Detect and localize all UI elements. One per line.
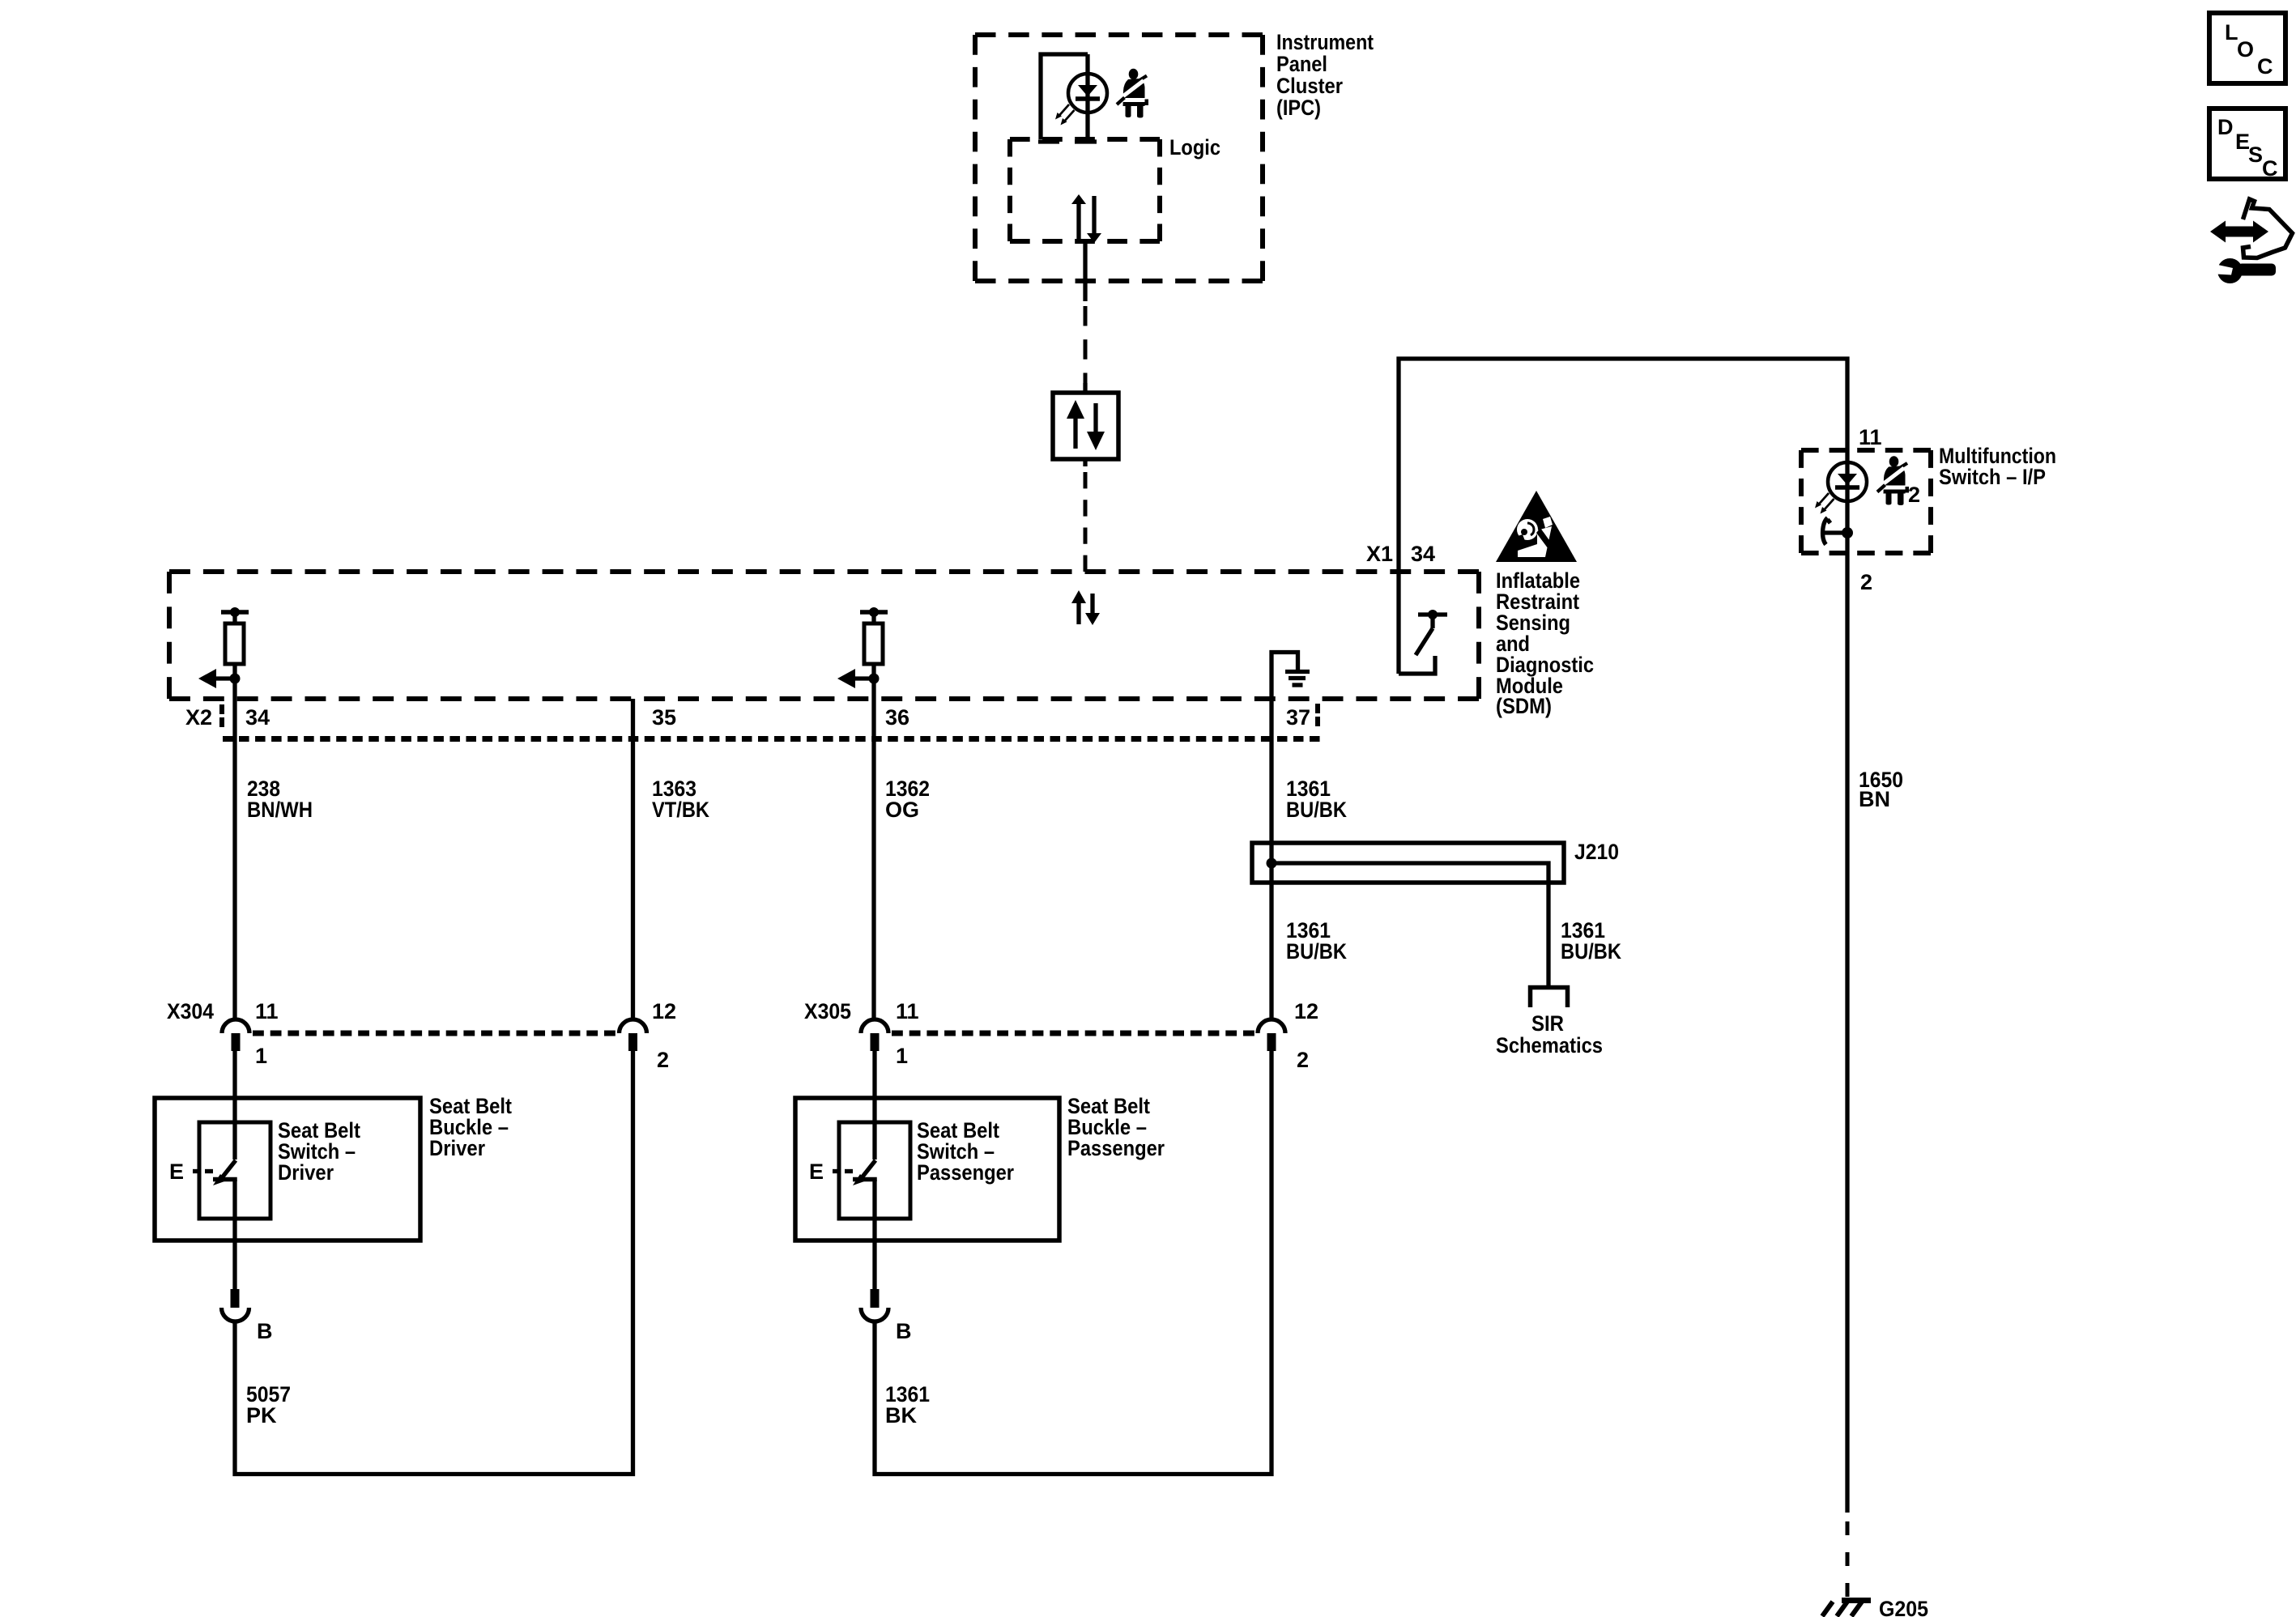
multifunction switch label xyxy=(1939,444,2056,489)
SDM label xyxy=(1496,568,1594,718)
pin label 2 (X304) xyxy=(657,1048,669,1072)
wire label 1650 BN xyxy=(1859,768,1903,811)
svg-text:PK: PK xyxy=(246,1403,277,1428)
pin 37 separator dash xyxy=(1315,704,1320,726)
wire label 238 BN/WH xyxy=(247,777,313,822)
logic dashed box in IPC xyxy=(1010,139,1160,241)
svg-text:E: E xyxy=(809,1160,824,1184)
resistor R-passenger top bar with node xyxy=(860,607,888,623)
wire label 1361 BK xyxy=(885,1382,930,1428)
svg-text:1: 1 xyxy=(896,1044,908,1068)
svg-text:2: 2 xyxy=(1860,570,1872,594)
svg-text:BN/WH: BN/WH xyxy=(247,798,313,822)
pin label 2 (X305) xyxy=(1297,1048,1309,1072)
E node label (passenger) xyxy=(809,1160,853,1184)
wire - driver switch to terminal B xyxy=(232,1180,236,1289)
pin label 35 xyxy=(652,705,676,730)
svg-text:O: O xyxy=(2237,37,2254,62)
ground symbol inside SDM (pin 37) xyxy=(1272,653,1310,702)
svg-text:(IPC): (IPC) xyxy=(1276,96,1321,120)
splice pack J210 xyxy=(1252,843,1564,985)
wire label 1361 BU/BK (branch) xyxy=(1561,918,1621,964)
wire - LED branch hook in IPC xyxy=(1038,54,1088,142)
svg-text:Cluster: Cluster xyxy=(1276,74,1343,98)
svg-text:BU/BK: BU/BK xyxy=(1286,939,1347,964)
resistor R-passenger xyxy=(864,623,883,664)
pin label X1 xyxy=(1366,542,1393,566)
wire - resistor R-driver to pin 34 xyxy=(232,664,236,1018)
seat belt icon in multifunction switch xyxy=(1877,456,1920,507)
wire - resistor R-passenger to pin 36 xyxy=(871,664,875,1018)
connector X305 pin 12 (arc + pin) xyxy=(1258,1019,1285,1051)
switch S-passenger blade xyxy=(853,1160,875,1185)
svg-text:11: 11 xyxy=(1859,425,1882,449)
seat belt icon in IPC xyxy=(1117,69,1148,118)
svg-text:S: S xyxy=(2248,143,2263,167)
svg-text:X1: X1 xyxy=(1366,542,1393,566)
svg-text:11: 11 xyxy=(896,999,919,1023)
connector X2 label xyxy=(185,705,212,730)
svg-text:X304: X304 xyxy=(167,999,214,1023)
bidirectional arrows at SDM serial input xyxy=(1071,590,1100,625)
bidirectional arrows in logic box xyxy=(1071,194,1101,243)
svg-text:SIR: SIR xyxy=(1531,1011,1564,1036)
wire - serial data dashed segment lower xyxy=(1083,459,1087,572)
svg-text:37: 37 xyxy=(1286,705,1310,730)
seat belt switch passenger inner box xyxy=(839,1122,910,1219)
arrow to seat belt indicator (driver) xyxy=(198,669,235,688)
svg-text:Switch – I/P: Switch – I/P xyxy=(1939,465,2046,489)
svg-text:Panel: Panel xyxy=(1276,52,1327,76)
wire - X305-11 into passenger buckle switch xyxy=(872,1051,876,1160)
E node label (driver) xyxy=(169,1160,213,1184)
connector X305 dashed link xyxy=(892,1031,1254,1036)
instrument panel cluster (IPC) dashed box xyxy=(975,35,1263,281)
svg-text:34: 34 xyxy=(245,705,270,730)
G205 label xyxy=(1879,1597,1928,1617)
pin label 11 (X305) xyxy=(896,999,919,1023)
svg-text:OG: OG xyxy=(885,798,919,822)
svg-text:Logic: Logic xyxy=(1169,135,1220,160)
svg-text:BU/BK: BU/BK xyxy=(1286,798,1347,822)
connector X304 pin 12 (arc + pin) xyxy=(620,1019,647,1051)
svg-text:D: D xyxy=(2217,115,2234,139)
terminal B connector (passenger) xyxy=(861,1289,888,1321)
svg-text:BN: BN xyxy=(1859,787,1890,811)
svg-text:C: C xyxy=(2257,54,2273,79)
svg-text:Schematics: Schematics xyxy=(1496,1033,1603,1057)
wire - 5057 PK down and loop to X304-12 xyxy=(235,1051,633,1474)
SIR Schematics label xyxy=(1496,1011,1603,1057)
pin label 2 (multifunction switch) xyxy=(1860,570,1872,594)
legend DESC box xyxy=(2209,109,2285,181)
connector X305 pin 11 (arc + pin) xyxy=(861,1019,888,1051)
junction node A (pin34 wire) xyxy=(230,674,241,684)
pin label B (driver) xyxy=(257,1319,273,1343)
connector X2 separator dash xyxy=(219,704,224,727)
terminal B connector (driver) xyxy=(222,1289,249,1321)
svg-text:G205: G205 xyxy=(1879,1597,1928,1617)
pin label 1 (X305) xyxy=(896,1044,908,1068)
wire - multifunction switch through-wire 1650 xyxy=(1845,450,1849,1513)
ground G205 symbol xyxy=(1822,1601,1871,1617)
arrow to seat belt indicator (passenger) xyxy=(837,669,874,688)
connector X305 label xyxy=(804,999,851,1023)
pin label 37 xyxy=(1286,705,1310,730)
pin label 34 (X2) xyxy=(245,705,270,730)
svg-text:C: C xyxy=(2262,156,2278,181)
svg-text:1: 1 xyxy=(255,1044,267,1068)
wire - serial data dashed segment upper xyxy=(1084,306,1088,393)
pin label 34 (X1) xyxy=(1411,542,1435,566)
seat belt buckle passenger label xyxy=(1067,1094,1165,1160)
svg-text:Passenger: Passenger xyxy=(1067,1136,1165,1160)
svg-text:J210: J210 xyxy=(1574,840,1619,864)
svg-text:(SDM): (SDM) xyxy=(1496,694,1552,718)
svg-text:X305: X305 xyxy=(804,999,851,1023)
IPC label xyxy=(1276,30,1374,120)
svg-text:Instrument: Instrument xyxy=(1276,30,1374,54)
svg-text:X2: X2 xyxy=(185,705,212,730)
connector X304 label xyxy=(167,999,214,1023)
resistor R-driver top bar with node xyxy=(221,607,249,623)
wire - X304-11 into driver buckle switch xyxy=(232,1051,236,1160)
seat belt switch driver inner box xyxy=(199,1122,270,1219)
svg-text:Driver: Driver xyxy=(429,1136,485,1160)
connector X304 pin 11 (arc + pin) xyxy=(222,1019,249,1051)
Logic label xyxy=(1169,135,1220,160)
wire label 5057 PK xyxy=(246,1382,291,1428)
SIR warning triangle icon xyxy=(1496,491,1577,562)
svg-text:B: B xyxy=(257,1319,273,1343)
connector X304 dashed link xyxy=(253,1031,616,1036)
junction node B (pin36 wire) xyxy=(869,674,880,684)
LED indicator (seat belt lamp) in IPC xyxy=(1055,54,1107,142)
pin label B (passenger) xyxy=(896,1319,912,1343)
serial data symbol box xyxy=(1053,383,1118,459)
seat belt switch passenger outer box xyxy=(795,1098,1059,1240)
svg-text:35: 35 xyxy=(652,705,676,730)
wire label 1363 VT/BK xyxy=(652,777,709,822)
legend service icon (double arrow, part outline, wrench) xyxy=(2210,199,2293,283)
svg-text:2: 2 xyxy=(1297,1048,1309,1072)
pin label 12 (X304) xyxy=(652,999,676,1023)
svg-text:12: 12 xyxy=(652,999,676,1023)
wire - 1650 BN dashed segment to ground xyxy=(1846,1521,1850,1597)
pin label 11 (X304) xyxy=(255,999,279,1023)
switch S1 inside SDM (X1 pin 34) xyxy=(1399,610,1447,674)
pin label 36 xyxy=(885,705,909,730)
LED indicator in multifunction switch xyxy=(1815,462,1867,514)
pin label 12 (X305) xyxy=(1294,999,1318,1023)
wire - 1361 BK down and loop to X305-12 xyxy=(875,1051,1272,1474)
svg-text:E: E xyxy=(169,1160,184,1184)
svg-text:11: 11 xyxy=(255,999,279,1023)
svg-text:2: 2 xyxy=(657,1048,669,1072)
multifunction switch dashed box xyxy=(1801,450,1931,553)
seat belt switch driver outer box xyxy=(155,1098,420,1240)
legend LOC box xyxy=(2209,13,2285,83)
svg-text:36: 36 xyxy=(885,705,909,730)
seat belt buckle driver label xyxy=(429,1094,512,1160)
svg-text:12: 12 xyxy=(1294,999,1318,1023)
wire - passenger switch to terminal B xyxy=(872,1180,876,1289)
svg-text:B: B xyxy=(896,1319,912,1343)
svg-text:34: 34 xyxy=(1411,542,1435,566)
wire - SDM pin 37 to J210 xyxy=(1269,701,1273,1018)
inflatable restraint sensing and diagnostic module (SDM) dashed box xyxy=(169,572,1479,699)
seat belt switch driver label xyxy=(278,1118,360,1185)
wire - SDM pin 35 to X304-12 xyxy=(631,699,635,1018)
switch S2 in multifunction switch xyxy=(1823,518,1853,545)
wire - serial data from logic box (solid) xyxy=(1083,241,1087,301)
off-page connector to SIR schematics xyxy=(1531,988,1568,1008)
pin label 1 (X304) xyxy=(255,1044,267,1068)
wire label 1361 BU/BK (lower left) xyxy=(1286,918,1347,964)
wire label 1362 OG xyxy=(885,777,930,822)
pin label 11 (multifunction switch) xyxy=(1859,425,1882,449)
svg-text:Passenger: Passenger xyxy=(917,1160,1014,1185)
svg-text:VT/BK: VT/BK xyxy=(652,798,709,822)
svg-text:2: 2 xyxy=(1908,483,1920,507)
svg-text:Driver: Driver xyxy=(278,1160,334,1185)
wire - SDM X1-34 up and over to multifunction switch xyxy=(1399,359,1847,674)
seat belt switch passenger label xyxy=(917,1118,1014,1185)
resistor R-driver xyxy=(225,623,244,664)
wire label 1361 BU/BK (upper) xyxy=(1286,777,1347,822)
connector X2 dotted line xyxy=(223,736,1320,742)
switch S-driver blade xyxy=(213,1160,236,1185)
J210 label xyxy=(1574,840,1619,864)
svg-text:BK: BK xyxy=(885,1403,917,1428)
svg-text:BU/BK: BU/BK xyxy=(1561,939,1621,964)
